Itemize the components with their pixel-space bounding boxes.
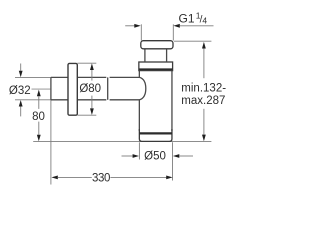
dimension O80 xyxy=(90,63,94,115)
dimension O32 xyxy=(19,64,23,117)
dimension G 1 1/4 xyxy=(125,24,213,28)
label 80 xyxy=(32,111,45,123)
label O50 xyxy=(144,151,166,163)
body top ring xyxy=(139,62,173,71)
wall extension line (330 left) xyxy=(50,100,52,185)
body seam line xyxy=(139,132,172,134)
svg-text:4: 4 xyxy=(202,16,207,26)
dimension 330 xyxy=(51,176,172,180)
label O80 xyxy=(79,83,101,95)
trap body cylinder xyxy=(139,71,172,142)
pipe centerline tick xyxy=(32,88,51,90)
dimension 80 xyxy=(37,90,41,142)
extension line pipe top (O32) xyxy=(15,76,51,78)
inlet horn cap xyxy=(140,77,146,99)
extension line O50/330 right xyxy=(172,142,174,180)
svg-text:Ø80: Ø80 xyxy=(79,83,101,95)
extension line pipe bottom (O32) xyxy=(15,99,51,101)
label O32 xyxy=(9,85,31,97)
label G1 1/4 xyxy=(179,11,208,26)
label min.132-max.287 xyxy=(181,83,226,107)
pipe outlet to wall xyxy=(51,77,140,99)
wall flange escutcheon xyxy=(68,63,77,115)
extension line G thread left xyxy=(140,24,142,40)
connector neck xyxy=(145,49,167,62)
svg-text:max.287: max.287 xyxy=(181,95,225,107)
extension line flange bottom (O80) xyxy=(78,114,97,116)
dimension O50 xyxy=(122,154,194,158)
extension line O50 left xyxy=(138,142,140,159)
svg-text:Ø50: Ø50 xyxy=(144,151,166,163)
svg-text:Ø32: Ø32 xyxy=(9,85,31,97)
svg-text:min.132-: min.132- xyxy=(181,83,226,95)
top nut xyxy=(141,41,173,49)
pipe joint line xyxy=(107,77,109,99)
svg-text:330: 330 xyxy=(92,173,110,185)
extension line G thread right xyxy=(172,24,174,40)
dimension min-max xyxy=(202,42,206,141)
top extension line (min-max) xyxy=(174,40,211,42)
svg-text:80: 80 xyxy=(32,111,45,123)
bottom extension line (80 / min-max) xyxy=(33,141,211,143)
label 330 xyxy=(92,173,110,185)
svg-text:G1: G1 xyxy=(179,11,195,25)
extension line flange top (O80) xyxy=(78,62,97,64)
